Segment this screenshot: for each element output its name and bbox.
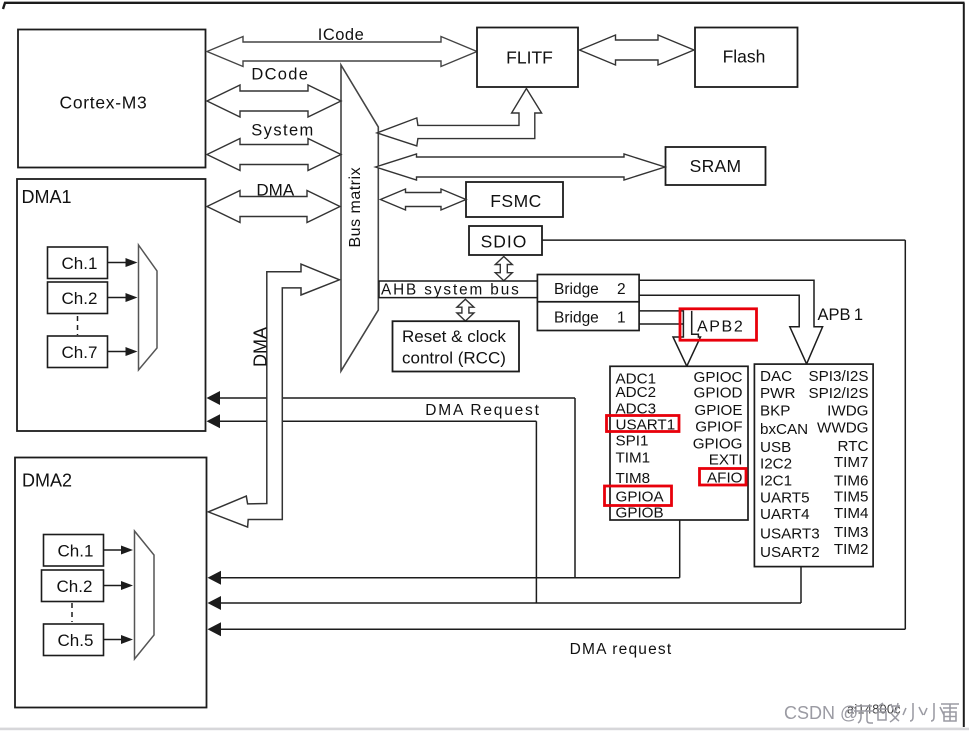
svg-text:USB: USB	[760, 439, 791, 456]
DMA2 mux trapezoid	[135, 531, 155, 659]
wire APB1 peripherals down connector	[800, 567, 802, 603]
svg-text:UART4: UART4	[760, 506, 810, 523]
svg-text:2: 2	[617, 281, 626, 298]
bus matrix-FLITF bent arrow	[377, 89, 542, 146]
svg-text:System: System	[251, 122, 314, 140]
svg-text:SRAM: SRAM	[690, 156, 742, 176]
AFIO red highlight box	[700, 469, 747, 486]
svg-text:FLITF: FLITF	[506, 48, 553, 68]
DMA1 channel Ch.2	[48, 282, 108, 314]
wire Ch.1 to DMA2 mux	[104, 549, 123, 551]
svg-text:GPIOB: GPIOB	[616, 504, 664, 521]
svg-text:Ch.5: Ch.5	[58, 631, 94, 650]
frame bottom separator (light)	[0, 728, 969, 731]
block DMA2	[15, 458, 207, 708]
wire vertical connector x536	[535, 421, 537, 603]
AHB system bus lines	[378, 280, 537, 282]
svg-text:bxCAN: bxCAN	[760, 421, 808, 438]
DMA1 channel Ch.1	[48, 247, 108, 279]
wire Ch.7 to DMA1 mux	[108, 351, 128, 353]
svg-text:FSMC: FSMC	[490, 191, 542, 211]
svg-text:BKP: BKP	[760, 403, 790, 420]
wire SDIO to right rail	[542, 239, 905, 241]
svg-text:Cortex-M3: Cortex-M3	[60, 93, 148, 113]
svg-text:TIM6: TIM6	[834, 472, 869, 489]
block SDIO	[469, 226, 542, 255]
watermark glyph lei	[941, 704, 959, 721]
block FSMC	[466, 182, 563, 217]
wire DMA request lineB to DMA2	[219, 602, 801, 604]
svg-text:TIM8: TIM8	[616, 470, 651, 487]
wire Bridge2 lower to APB1	[639, 295, 807, 364]
svg-text:TIM4: TIM4	[834, 505, 869, 522]
svg-text:PWR: PWR	[760, 385, 795, 402]
svg-text:DMA request: DMA request	[570, 641, 673, 658]
wire DMA request line1 to DMA1	[219, 397, 575, 399]
svg-text:DMA: DMA	[251, 327, 271, 367]
watermark glyph wu	[854, 706, 874, 723]
svg-text:SPI2/I2S: SPI2/I2S	[809, 385, 869, 402]
wire Bridge1 upper to APB2	[639, 311, 687, 366]
USART1 red highlight box	[607, 416, 680, 432]
svg-text:1: 1	[617, 310, 626, 327]
block Reset & clock control (RCC)	[393, 321, 520, 371]
svg-text:GPIOA: GPIOA	[616, 488, 665, 505]
wire right rail down connector	[904, 240, 906, 629]
svg-text:Bridge: Bridge	[554, 281, 599, 298]
wire Bridge1 lower to APB2	[639, 323, 683, 325]
svg-text:APB2: APB2	[697, 319, 744, 336]
svg-text:ICode: ICode	[318, 26, 365, 44]
block Flash	[695, 28, 798, 88]
block SRAM	[666, 147, 766, 185]
svg-text:GPIOF: GPIOF	[695, 418, 742, 435]
wire vertical connector x575	[574, 398, 576, 578]
DMA2 channel ellipsis dashed line	[71, 603, 73, 622]
wire Bridge2 upper to APB1	[639, 280, 823, 364]
svg-text:WWDG: WWDG	[817, 420, 868, 437]
frame top border line	[3, 3, 965, 9]
bus matrix-SRAM double arrow	[376, 154, 666, 180]
svg-text:GPIOD: GPIOD	[694, 384, 743, 401]
wire APB2 channel right side and arrowhead	[687, 311, 701, 366]
wire Ch.5 to DMA2 mux	[104, 639, 123, 641]
DMA2 channel Ch.1	[44, 535, 104, 567]
DMA1 channel ellipsis dashed line	[77, 316, 79, 335]
svg-text:USART2: USART2	[760, 544, 820, 561]
svg-text:Ch.2: Ch.2	[57, 577, 93, 596]
APB2 red highlight box	[680, 309, 757, 340]
svg-text:TIM5: TIM5	[834, 489, 869, 506]
svg-text:SDIO: SDIO	[481, 232, 528, 252]
block APB1 peripherals	[754, 364, 873, 566]
watermark glyph xiao2	[924, 703, 944, 721]
DMA2 channel Ch.5	[44, 624, 104, 656]
wire DMA request lineC to DMA2	[219, 628, 905, 630]
svg-text:DAC: DAC	[760, 368, 792, 385]
wire Ch.1 to DMA1 mux	[108, 262, 128, 264]
block FLITF	[477, 28, 578, 88]
svg-text:Ch.1: Ch.1	[62, 254, 98, 273]
svg-text:I2C2: I2C2	[760, 455, 792, 472]
svg-text:TIM7: TIM7	[834, 454, 869, 471]
svg-text:ADC2: ADC2	[616, 384, 657, 401]
svg-text:DMA Request: DMA Request	[425, 402, 540, 419]
bus SDIO-AHB vertical double arrow	[495, 257, 512, 281]
DMA1 channel Ch.7	[48, 336, 108, 368]
svg-text:Bridge: Bridge	[554, 310, 599, 327]
svg-text:GPIOC: GPIOC	[694, 369, 743, 386]
svg-text:RTC: RTC	[838, 438, 869, 455]
block DMA1	[17, 179, 206, 431]
svg-text:SPI3/I2S: SPI3/I2S	[809, 368, 869, 385]
svg-text:Ch.7: Ch.7	[62, 343, 98, 362]
bus AHB-RCC vertical double arrow	[457, 299, 474, 321]
bus matrix-FSMC double arrow	[381, 189, 467, 210]
block APB2 peripherals	[610, 366, 748, 520]
block Cortex-M3	[18, 30, 206, 168]
svg-text:DMA: DMA	[256, 181, 294, 200]
bus matrix polygon	[341, 65, 378, 371]
frame right border line	[963, 3, 965, 727]
svg-text:SPI1: SPI1	[616, 432, 649, 449]
bus DMA double arrow	[207, 191, 340, 223]
svg-text:Flash: Flash	[723, 47, 766, 67]
svg-text:Reset & clock: Reset & clock	[402, 327, 506, 346]
wire Ch.2 to DMA1 mux	[108, 297, 128, 299]
bus DMA2-busmatrix Z arrow	[208, 264, 339, 527]
svg-text:GPIOG: GPIOG	[693, 435, 743, 452]
DMA1 mux trapezoid	[139, 245, 158, 370]
svg-text:TIM3: TIM3	[834, 524, 869, 541]
svg-text:Bus matrix: Bus matrix	[347, 167, 364, 248]
bus ICode double arrow	[207, 37, 477, 67]
svg-text:Ch.2: Ch.2	[62, 289, 98, 308]
GPIOA red highlight box	[605, 486, 672, 506]
svg-text:DMA1: DMA1	[22, 187, 72, 207]
svg-text:control (RCC): control (RCC)	[402, 349, 506, 368]
svg-text:AHB system bus: AHB system bus	[381, 282, 521, 299]
wire DMA request lineA to DMA2	[219, 577, 680, 579]
DMA2 channel Ch.2	[42, 570, 104, 602]
watermark glyph xiao1	[903, 703, 923, 721]
svg-text:DCode: DCode	[251, 66, 309, 84]
block Bridge 1	[537, 302, 639, 331]
wire Ch.2 to DMA2 mux	[104, 585, 123, 587]
svg-text:APB 1: APB 1	[818, 306, 864, 324]
svg-text:Ch.1: Ch.1	[58, 542, 94, 561]
svg-text:I2C1: I2C1	[760, 473, 792, 490]
svg-text:UART5: UART5	[760, 489, 810, 506]
svg-text:TIM1: TIM1	[616, 449, 651, 466]
block Bridge 2	[537, 275, 639, 302]
watermark glyph di	[877, 703, 900, 722]
wire APB2 peripherals down connector	[679, 520, 681, 578]
svg-text:GPIOE: GPIOE	[694, 402, 742, 419]
svg-text:CSDN @: CSDN @	[784, 703, 858, 723]
svg-text:TIM2: TIM2	[834, 541, 869, 558]
bus DCode double arrow	[207, 85, 341, 117]
svg-text:DMA2: DMA2	[22, 471, 72, 491]
svg-text:USART3: USART3	[760, 525, 820, 542]
svg-text:IWDG: IWDG	[827, 403, 868, 420]
bus System double arrow	[207, 139, 341, 171]
bus FLITF-Flash double arrow	[580, 35, 695, 65]
wire DMA request line2 to DMA1	[219, 420, 536, 422]
svg-text:EXTI: EXTI	[709, 451, 743, 468]
